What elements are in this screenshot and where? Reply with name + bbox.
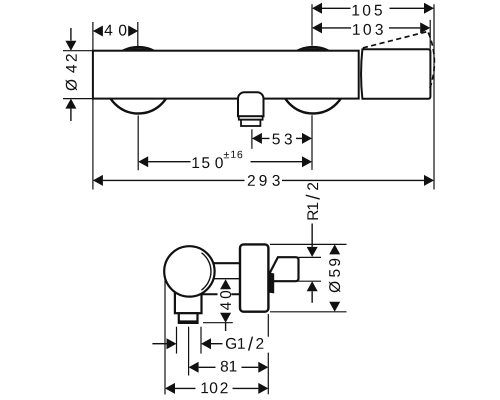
union pipe dark wedge — [269, 272, 275, 293]
dimension 102 label — [202, 382, 228, 393]
wall union escutcheon left (circle behind body) — [105, 47, 171, 113]
dimension 105 arrows and line — [312, 3, 322, 14]
dimension diameter 42 arrows — [70, 28, 72, 41]
shower outlet dome — [238, 92, 264, 116]
escutcheon top lens left — [124, 48, 152, 51]
dimension 103 label — [353, 24, 383, 35]
extension line outlet right — [200, 327, 202, 354]
dimension 40 label — [105, 25, 127, 36]
extension line swivel extreme — [433, 4, 435, 189]
dimension 40 side arrows — [220, 279, 231, 289]
handle lever — [361, 49, 430, 99]
extension line outlet bottom — [203, 322, 233, 324]
extension line outlet centre — [188, 327, 190, 376]
extension line wall plane — [267, 314, 269, 394]
dimension G 1/2 arrows and line — [152, 343, 166, 345]
body tube axis line — [214, 278, 241, 280]
inner cap arc — [202, 253, 211, 290]
dimension R 1/2 label — [306, 183, 320, 220]
extension line body left edge — [92, 22, 94, 190]
body tube bottom edge — [200, 293, 240, 295]
dimension R 1/2 arrows — [311, 224, 313, 247]
extension ticks body diameter — [63, 51, 92, 99]
dimension diameter 59 arrows — [329, 244, 340, 254]
dimension 293 arrows and line — [93, 175, 103, 186]
dimension 40 side label — [220, 291, 231, 310]
dimension diameter 59 label — [329, 259, 340, 293]
dimension diameter 42 label — [66, 54, 77, 90]
mixer body bar — [93, 51, 359, 99]
body tube top edge — [211, 262, 242, 264]
dimension 81 arrows and line — [189, 362, 199, 373]
extension line right union centre — [311, 4, 313, 170]
dimension 40 arrows — [93, 26, 103, 37]
body cap circle — [164, 246, 214, 296]
dimension 150 arrows and line — [138, 156, 148, 167]
dimension 81 label — [221, 361, 237, 372]
extension line outlet centre — [251, 129, 253, 149]
extension line circle left — [164, 276, 166, 395]
dimension 105 label — [353, 5, 382, 16]
escutcheon side rounded rect — [240, 244, 268, 311]
union nut side — [270, 257, 299, 281]
outlet block upper — [175, 289, 202, 313]
handle swivel dashed arc — [428, 33, 434, 91]
handle swivel dashed line — [363, 32, 428, 48]
outlet bottom thick edge — [179, 320, 198, 323]
dimension 150 label — [193, 151, 243, 169]
dimension 53 label — [272, 134, 292, 145]
dimension 102 arrows and line — [165, 383, 175, 394]
extension line outlet left — [176, 327, 178, 354]
extension line handle end — [429, 20, 431, 49]
extension lines thread R — [299, 257, 322, 281]
outlet block lower — [179, 313, 198, 323]
shower outlet foot — [241, 120, 260, 126]
dimension 103 arrows and line — [312, 22, 322, 33]
shower outlet flange — [239, 116, 263, 119]
dimension 53 arrows and line — [252, 133, 262, 144]
dimension 293 label — [248, 175, 280, 186]
escutcheon top lens right — [299, 48, 327, 51]
dimension G 1/2 label — [226, 337, 264, 351]
wall union escutcheon right (circle behind body) — [280, 47, 346, 113]
extension line left union centre — [137, 22, 139, 170]
extension lines escutcheon diameter — [270, 244, 347, 311]
